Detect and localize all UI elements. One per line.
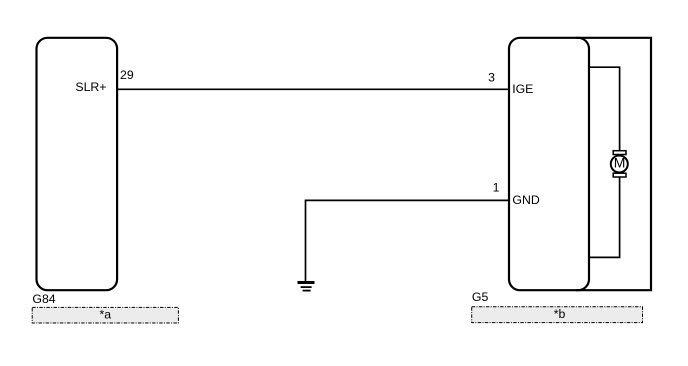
svg-text:3: 3 xyxy=(488,70,495,84)
svg-text:1: 1 xyxy=(493,180,500,194)
ground xyxy=(298,281,315,292)
svg-text:IGE: IGE xyxy=(512,82,533,96)
svg-text:SLR+: SLR+ xyxy=(75,80,106,94)
pin label IGE xyxy=(512,82,533,96)
wire GND (pin 1) to ground xyxy=(306,200,510,281)
svg-text:G84: G84 xyxy=(32,292,55,306)
pin label GND xyxy=(512,193,539,207)
harness box *b xyxy=(472,307,643,323)
internal wire pin 3 to motor xyxy=(589,67,620,151)
svg-text:29: 29 xyxy=(120,68,134,82)
motor assembly body xyxy=(576,38,651,290)
pin number 3 xyxy=(488,70,495,84)
label G5 xyxy=(472,290,489,304)
internal wire motor to pin 1 xyxy=(589,177,620,258)
label G84 xyxy=(32,292,55,306)
svg-text:G5: G5 xyxy=(472,290,489,304)
wire SLR+ (pin 29) to IGE (pin 3) xyxy=(117,88,509,90)
connector G84 xyxy=(37,38,118,290)
connector G5 xyxy=(509,38,589,290)
svg-text:M: M xyxy=(614,155,626,171)
pin number 1 xyxy=(493,180,500,194)
pin label SLR+ xyxy=(75,80,106,94)
svg-text:*a: *a xyxy=(99,307,111,321)
svg-text:*b: *b xyxy=(554,307,566,321)
pin number 29 xyxy=(120,68,134,82)
svg-text:GND: GND xyxy=(512,193,539,207)
motor M xyxy=(611,151,628,177)
harness box *a xyxy=(32,307,178,323)
